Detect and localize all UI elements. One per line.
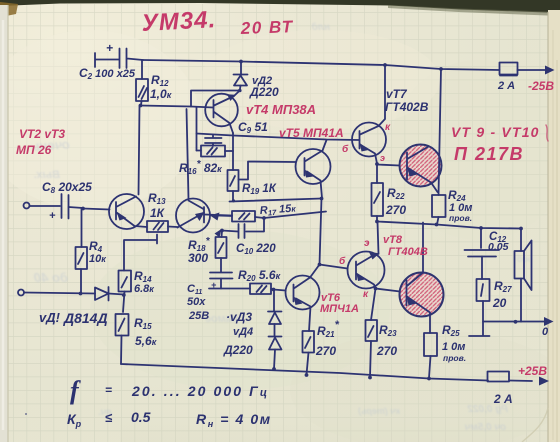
svg-text:vТ4 МП38А: vТ4 МП38А <box>246 102 316 117</box>
svg-text:vД!: vД! <box>39 310 61 325</box>
svg-text:Д814Д: Д814Д <box>63 310 108 326</box>
svg-text:0: 0 <box>542 326 549 338</box>
node C8 right <box>81 207 85 211</box>
svg-text:ГТ404В: ГТ404В <box>388 246 428 258</box>
svg-text:УМ34.: УМ34. <box>141 6 217 37</box>
transistor VT9 P217V <box>400 145 442 193</box>
svg-text:Д220: Д220 <box>249 85 279 99</box>
svg-text:5,6к: 5,6к <box>135 334 157 348</box>
resistor R20 5.6K <box>238 268 281 294</box>
capacitor C12 0.05 <box>465 228 509 279</box>
node R19 bottom <box>232 199 235 202</box>
svg-text:R19 1К: R19 1К <box>242 183 277 196</box>
resistor R25 1 Ohm <box>424 323 466 378</box>
wire C11 to R20 <box>209 288 250 290</box>
transistor VT8 GT404V <box>348 222 385 289</box>
svg-text:+: + <box>49 210 56 222</box>
stray red mark right edge <box>546 125 548 141</box>
node R4 bottom <box>79 292 83 296</box>
svg-text:VТ2 vТ3: VТ2 vТ3 <box>19 127 65 141</box>
wire VT8 emitter to VT10 base <box>376 289 401 292</box>
node rail-VT7 <box>383 63 387 67</box>
node speaker bottom <box>514 320 518 324</box>
resistor R17 15K <box>210 202 297 221</box>
node VT7 emitter <box>375 162 379 166</box>
svg-text:C9 51: C9 51 <box>238 120 268 135</box>
wire output arrow 0 <box>521 317 554 338</box>
svg-text:МПЧ1А: МПЧ1А <box>320 303 359 315</box>
node VD2 bottom junction <box>238 89 242 93</box>
svg-text:+: + <box>106 41 113 55</box>
transistor VT3 MP26 <box>176 199 232 233</box>
svg-text:МП 26: МП 26 <box>16 143 52 157</box>
resistor R15 5.6K <box>116 314 157 364</box>
diode VD2 D220 <box>234 62 280 100</box>
capacitor C2 <box>79 41 143 81</box>
svg-text:R20 5.6к: R20 5.6к <box>238 268 281 283</box>
svg-text:≤: ≤ <box>105 410 113 425</box>
resistor R19 1K <box>228 162 296 202</box>
svg-text:1 0м: 1 0м <box>442 341 465 353</box>
node rail-VD2 <box>239 60 243 64</box>
diode VD1 D814D <box>39 287 124 326</box>
transistor VT5 MP41A <box>296 140 331 198</box>
transistor VT2 MP26 <box>109 194 147 229</box>
svg-text:VТ 9 - VТ10: VТ 9 - VТ10 <box>451 124 540 140</box>
node R23 bottom <box>368 376 372 380</box>
svg-text:пров.: пров. <box>443 353 466 363</box>
svg-text:Rн = 4 0м: Rн = 4 0м <box>196 411 272 429</box>
wire A feedback rail <box>230 199 322 202</box>
svg-text:6.8к: 6.8к <box>134 283 154 295</box>
node VT8 emitter <box>374 287 378 291</box>
svg-text:э: э <box>364 238 370 249</box>
transistor VT6 MP41A <box>286 265 320 332</box>
wire input2 to VD1 <box>24 293 95 294</box>
wire R13 tap down to R14 <box>124 235 157 271</box>
wire output bottom <box>483 321 521 323</box>
resistor R4 10K <box>76 209 107 294</box>
svg-text:20. ... 20 000 Гц: 20. ... 20 000 Гц <box>131 383 269 399</box>
svg-text:-25В: -25В <box>528 79 554 93</box>
transistor VT7 GT402V <box>352 65 429 164</box>
node VT5 emitter join <box>320 197 324 201</box>
transistor VT4 MP38A <box>205 91 240 134</box>
wire R17 right to output vertical <box>264 212 326 219</box>
diode VD4 <box>223 324 282 369</box>
capacitor C9 51 <box>205 120 268 146</box>
node VD4 bottom <box>272 367 276 371</box>
resistor R18 300 <box>188 229 227 272</box>
svg-text:до 40: до 40 <box>33 270 68 285</box>
svg-text:ГТ402В: ГТ402В <box>385 100 429 114</box>
node rail-R24 <box>439 67 443 71</box>
resistor R21 270 <box>303 319 340 375</box>
node R17-C10 right <box>262 216 266 220</box>
resistor R22 270 <box>372 164 407 222</box>
node speaker top <box>519 227 523 231</box>
fuse 2A (+25V) <box>488 372 513 407</box>
formula line 2 <box>67 409 272 429</box>
wire R12 to VT4 base <box>141 106 214 108</box>
svg-text:50х: 50х <box>187 296 206 308</box>
resistor R23 270 <box>366 289 398 378</box>
node C12 tap <box>479 226 483 230</box>
svg-text:C2 100 х25: C2 100 х25 <box>79 66 136 81</box>
svg-text:0.05: 0.05 <box>488 241 509 253</box>
resistor R27 2.0 <box>469 279 512 336</box>
node R12 bottom <box>139 104 143 108</box>
node VD1 to divider <box>122 293 126 297</box>
svg-text:2 А: 2 А <box>497 80 515 92</box>
wire node to VT6 base <box>274 290 286 291</box>
capacitor C8 20x25 <box>42 180 92 222</box>
svg-text:vД4: vД4 <box>233 326 253 338</box>
svg-text:·vД3: ·vД3 <box>226 310 252 324</box>
resistor R13 1K <box>147 191 178 232</box>
svg-text:Д220: Д220 <box>223 343 253 357</box>
wire VT3 collector riser <box>187 109 189 199</box>
speaker <box>515 229 532 322</box>
wire VT2 collector riser <box>139 106 140 195</box>
svg-text:270: 270 <box>315 344 336 358</box>
formula line 1 <box>70 376 269 405</box>
wire mid rail R22 to speaker top <box>377 222 521 229</box>
svg-text:+25В: +25В <box>518 364 547 378</box>
wire rail to R24 <box>439 69 442 195</box>
svg-text:нлд: нлд <box>312 22 330 33</box>
svg-text:0.5: 0.5 <box>131 409 151 425</box>
svg-text:vТ8: vТ8 <box>383 234 403 246</box>
svg-text:б: б <box>339 255 346 267</box>
resistor R24 1 Ohm <box>432 188 472 225</box>
svg-text:vТ5 МП41А: vТ5 МП41А <box>279 126 344 140</box>
node R24 bottom <box>435 223 439 227</box>
capacitor C11 50/25V <box>187 273 233 323</box>
svg-text:э: э <box>380 153 385 163</box>
node R22 bottom <box>375 220 379 224</box>
input terminal 1 <box>24 203 30 209</box>
fuse 2A (-25V) <box>497 63 518 93</box>
svg-text:1К: 1К <box>150 206 166 220</box>
wire mid vertical to VT8 base <box>320 199 348 269</box>
svg-text:кч (терь): кч (терь) <box>358 406 400 416</box>
wire VT4 collector to VT7 base <box>197 134 360 141</box>
node R21 bottom <box>305 373 309 377</box>
ink speck <box>25 413 27 415</box>
svg-text:20: 20 <box>492 296 507 310</box>
svg-text:R16* 82к: R16* 82к <box>179 159 222 176</box>
wire C9/R16 left bracket <box>196 108 198 151</box>
input terminal 2 <box>18 290 24 296</box>
svg-text:C8 20х25: C8 20х25 <box>42 180 92 195</box>
svg-text:2 А: 2 А <box>493 392 513 406</box>
wire bottom rail arrow <box>539 377 549 386</box>
svg-text:П 217В: П 217В <box>454 144 524 164</box>
resistor R16 82k <box>179 146 233 177</box>
wire top supply rail <box>143 60 500 70</box>
svg-text:пров.: пров. <box>449 213 472 223</box>
diode VD3 <box>226 290 282 325</box>
svg-text:б: б <box>342 143 349 155</box>
svg-text:1,0к: 1,0к <box>150 87 172 101</box>
wire C8 to VT2 base <box>83 209 110 210</box>
resistor R14 6.8K <box>119 269 155 312</box>
svg-text:270: 270 <box>385 203 406 217</box>
svg-text:10к: 10к <box>89 253 106 265</box>
svg-text:20 ВТ: 20 ВТ <box>239 17 293 38</box>
node R18 top <box>220 229 224 233</box>
svg-text:300: 300 <box>188 251 208 265</box>
svg-text:C10 220: C10 220 <box>236 243 276 256</box>
transistor VT10 P217V <box>400 223 444 334</box>
svg-text:25В: 25В <box>188 310 209 322</box>
svg-text:=: = <box>105 383 112 397</box>
wire VT4 collector down to R19 <box>232 133 234 170</box>
capacitor C10 220 <box>222 218 276 256</box>
svg-text:270: 270 <box>376 344 397 358</box>
wire input to C8 <box>30 205 61 207</box>
node R25 bottom <box>427 377 431 381</box>
wire base bracket to VD2 node <box>191 91 239 107</box>
wire VT7 emitter to VT9 base <box>377 165 400 166</box>
svg-text:оч 0,5мч: оч 0,5мч <box>464 422 506 433</box>
resistor R12 1.0k <box>136 60 172 106</box>
svg-text:vТ7: vТ7 <box>386 87 408 101</box>
node VT6 base <box>272 288 276 292</box>
wire rail arrow -25V <box>518 66 555 75</box>
node VT8 base junction <box>318 263 322 267</box>
wire bottom supply rail <box>121 364 532 381</box>
